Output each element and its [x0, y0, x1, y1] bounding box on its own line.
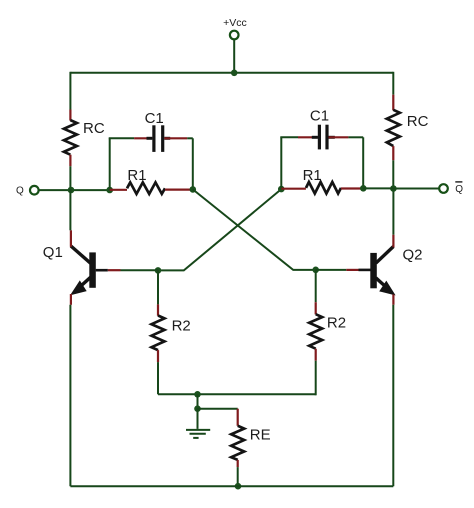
- svg-text:+Vcc: +Vcc: [223, 17, 247, 29]
- pin C1 left lead (left): [134, 137, 152, 139]
- transistor Q2: [359, 247, 395, 295]
- junction right box left: [278, 186, 285, 193]
- pin RE bottom lead: [237, 460, 239, 467]
- junction left box right: [190, 186, 197, 193]
- pin R1 right lead (left): [165, 189, 193, 191]
- junction Q1 base node: [155, 267, 162, 274]
- wire Q1 base node to pin: [121, 269, 159, 271]
- junction Q node: [68, 187, 75, 194]
- svg-text:RC: RC: [83, 120, 105, 137]
- wire right box right junction to Qbar node: [363, 187, 393, 189]
- ground: [186, 409, 210, 438]
- junction RE bottom: [235, 483, 242, 490]
- resistor RE: [231, 426, 244, 460]
- wire RC to Q node: [69, 166, 71, 190]
- wire right box top left: [280, 136, 298, 138]
- svg-text:Q: Q: [455, 184, 463, 195]
- pin RC left top lead: [69, 110, 71, 121]
- pin R2 bottom lead (right): [315, 349, 317, 361]
- wire right box left vertical: [280, 137, 282, 189]
- svg-text:R2: R2: [172, 317, 191, 334]
- wire Q1-base node down to R2: [157, 270, 159, 304]
- pin R2 top lead (right): [315, 302, 317, 314]
- pin Q2 emitter lead: [392, 294, 394, 304]
- wire right box right vertical: [362, 137, 364, 188]
- transistor Q1: [71, 246, 108, 295]
- pin RC right bottom lead: [392, 146, 394, 160]
- svg-text:RE: RE: [250, 426, 271, 443]
- junction Vcc/top-rail: [231, 70, 238, 77]
- terminal +Vcc: [230, 31, 239, 40]
- wire Vcc stem: [233, 40, 235, 73]
- svg-text:RC: RC: [407, 113, 429, 130]
- pin RC left bottom lead: [69, 155, 71, 167]
- wire ground drop: [197, 394, 199, 408]
- wire left vertical top (rail to RC): [69, 72, 71, 110]
- wire left box left vertical: [109, 138, 111, 190]
- junction left box left: [106, 187, 113, 194]
- svg-text:C1: C1: [310, 108, 329, 125]
- svg-text:Q2: Q2: [403, 246, 423, 263]
- wire Q2 base node to pin: [316, 269, 347, 271]
- resistor RC (left): [64, 120, 77, 155]
- pin C1 right lead (left): [164, 137, 187, 139]
- pin C1 right lead (right): [329, 136, 349, 138]
- resistor R1 (right): [306, 182, 341, 194]
- svg-text:C1: C1: [145, 110, 164, 127]
- svg-text:Q: Q: [16, 185, 24, 196]
- pin R2 bottom lead (left): [157, 350, 159, 362]
- terminal Q: [30, 186, 39, 195]
- pin R2 top lead (left): [157, 304, 159, 315]
- svg-text:R2: R2: [327, 315, 346, 332]
- wire cross right-to-left diagonal: [158, 189, 281, 270]
- svg-text:R1: R1: [303, 167, 322, 184]
- junction Q2 base node: [312, 267, 319, 274]
- pin Q1 collector lead: [70, 230, 72, 247]
- wire Q2-base node down to R2: [315, 270, 317, 302]
- pin Q1 emitter lead: [70, 294, 72, 305]
- wire right box top right: [348, 136, 363, 138]
- pin Q2 base lead: [346, 269, 358, 271]
- wire Qbar node to terminal: [393, 188, 439, 190]
- terminal Qbar: [439, 184, 448, 193]
- junction ground node: [194, 405, 201, 412]
- pin C1 left lead (right): [298, 136, 318, 138]
- resistor R2 (right): [309, 314, 322, 349]
- pin RE top lead: [237, 409, 239, 426]
- wire RC to Qbar node: [392, 160, 394, 188]
- resistor RC (right): [387, 110, 400, 146]
- junction Qbar node: [390, 185, 397, 192]
- wire right vertical top (rail to RC): [392, 72, 394, 95]
- svg-text:R1: R1: [127, 167, 146, 184]
- pin RC right top lead: [392, 95, 394, 111]
- pin Q1 base lead: [108, 269, 121, 271]
- pin R1 left lead (left): [110, 189, 127, 191]
- pin Q2 collector lead: [392, 235, 394, 248]
- wire left box right vertical: [192, 138, 194, 189]
- capacitor C1 (left): [147, 125, 171, 152]
- wire Q node to Q1 collector: [69, 189, 71, 230]
- junction ground top: [194, 391, 201, 398]
- wire RE to bottom rail: [237, 467, 239, 486]
- resistor R2 (left): [152, 316, 165, 351]
- wire left box top right: [187, 137, 193, 139]
- capacitor C1 (right): [312, 125, 335, 150]
- resistor R1 (left): [127, 182, 165, 194]
- wire left box top left: [109, 137, 134, 139]
- wire bottom rail: [70, 485, 393, 487]
- wire Q terminal to node: [39, 189, 110, 191]
- wire R2 bottom rail: [158, 393, 316, 395]
- pin R1 right lead (right): [341, 187, 363, 189]
- wire R2 left to emitter rail: [157, 362, 159, 394]
- wire ground node to RE branch: [198, 408, 238, 410]
- wire top rail: [70, 72, 393, 74]
- svg-text:Q1: Q1: [43, 244, 63, 261]
- wire Q1 emitter to bottom rail: [69, 305, 71, 486]
- pin R1 left lead (right): [281, 188, 306, 190]
- wire R2 right to emitter rail: [315, 361, 317, 396]
- wire Q2 emitter to bottom rail: [392, 305, 394, 486]
- wire Qbar node to Q2 collector: [392, 189, 394, 235]
- wire cross left-to-right diagonal: [193, 189, 316, 270]
- junction right box right: [360, 185, 367, 192]
